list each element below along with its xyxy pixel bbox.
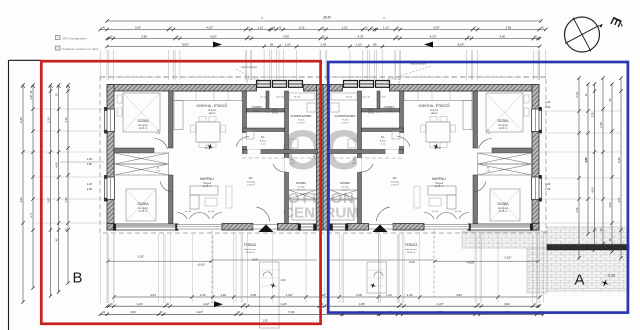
svg-text:Fürdő: Fürdő: [342, 119, 348, 122]
svg-text:3,00: 3,00: [504, 302, 510, 306]
svg-text:jm 1,00: jm 1,00: [207, 211, 214, 213]
svg-text:4,22⁵: 4,22⁵: [433, 25, 441, 29]
svg-text:3,90: 3,90: [141, 34, 147, 38]
svg-text:4,22⁵: 4,22⁵: [203, 302, 211, 306]
svg-text:GFS hőszigetelés: GFS hőszigetelés: [62, 36, 87, 40]
svg-text:11,02 m²: 11,02 m²: [499, 127, 508, 130]
entry walk: [260, 262, 280, 328]
top extension hairlines: [99, 50, 101, 80]
big window bottom: [469, 224, 532, 230]
tv/cab: [226, 186, 232, 208]
svg-text:1,20: 1,20: [407, 293, 413, 297]
door arc szoba1: [154, 139, 168, 149]
svg-text:SZOBA: SZOBA: [340, 181, 350, 185]
door szoba2: [473, 182, 486, 192]
door gaps: [284, 158, 289, 172]
svg-text:Mosdó: Mosdó: [272, 113, 279, 115]
exterior wall top: [390, 85, 540, 92]
svg-text:3,67: 3,67: [585, 157, 588, 162]
svg-text:8,25: 8,25: [19, 117, 23, 123]
svg-text:3,67: 3,67: [47, 197, 50, 202]
svg-text:1,20: 1,20: [200, 293, 206, 297]
svg-text:jm 1,00: jm 1,00: [454, 211, 461, 213]
entrance triangle: [373, 225, 388, 233]
svg-text:3,90: 3,90: [500, 34, 506, 38]
svg-text:4,22⁵: 4,22⁵: [210, 34, 218, 38]
top dimension rows: [107, 20, 541, 22]
blue boundary unit A: [328, 62, 628, 313]
svg-text:Raktár: Raktár: [254, 110, 261, 113]
bed szoba2: [126, 189, 156, 221]
svg-text:TERASZ: TERASZ: [405, 243, 418, 247]
svg-text:7,26 m²: 7,26 m²: [297, 122, 305, 125]
svg-text:FÜRDŐSZOBA: FÜRDŐSZOBA: [335, 113, 356, 118]
compass: [565, 17, 600, 52]
bed szoba1: [486, 93, 523, 132]
svg-text:étkező: étkező: [431, 112, 438, 115]
svg-text:1,00 2,40: 1,00 2,40: [362, 97, 370, 99]
svg-text:SZOBA: SZOBA: [296, 181, 306, 185]
svg-text:5,30 m²: 5,30 m²: [247, 184, 255, 187]
svg-text:Nappali: Nappali: [435, 183, 443, 185]
door arcs cluster: [397, 136, 410, 146]
svg-text:1,92⁵: 1,92⁵: [286, 293, 294, 297]
svg-text:B: B: [72, 270, 82, 287]
svg-text:3,10: 3,10: [576, 207, 579, 212]
svg-text:6,00: 6,00: [252, 258, 258, 262]
svg-text:1,00: 1,00: [285, 42, 291, 46]
sofa nappali: [190, 186, 218, 195]
partition szoba1: [473, 91, 478, 148]
svg-text:Szélfogó: Szélfogó: [391, 182, 400, 184]
bath fixtures: [331, 93, 357, 100]
cluster kamra/wc/bath: [243, 91, 247, 153]
svg-text:jm 1,00: jm 1,00: [431, 211, 438, 213]
svg-text:1,00: 1,00: [356, 42, 362, 46]
big window bottom: [114, 224, 177, 230]
entrance triangle: [259, 225, 274, 233]
svg-text:Szélfogó: Szélfogó: [247, 182, 256, 184]
svg-text:NAPPALI: NAPPALI: [200, 177, 214, 181]
svg-text:4,35: 4,35: [358, 34, 364, 38]
bottom wall mid: [393, 224, 424, 231]
svg-text:3,97: 3,97: [29, 94, 33, 100]
kl fixtures: [392, 131, 400, 139]
svg-text:1,20: 1,20: [545, 100, 551, 104]
svg-text:11,02 m²: 11,02 m²: [139, 127, 148, 130]
svg-text:4,22⁵: 4,22⁵: [196, 310, 204, 314]
kitchen counter: [404, 92, 472, 101]
svg-text:±0,00: ±0,00: [435, 146, 442, 150]
svg-text:ET.: ET.: [393, 176, 398, 180]
svg-text:2,14: 2,14: [46, 117, 50, 123]
svg-text:SZOBA: SZOBA: [497, 119, 509, 123]
svg-text:2,14: 2,14: [65, 117, 68, 122]
svg-text:90 2,40: 90 2,40: [294, 97, 300, 99]
svg-text:Konyha: Konyha: [430, 110, 439, 112]
bottom extension hairlines: [99, 234, 101, 303]
svg-text:4,05: 4,05: [590, 187, 594, 193]
red boundary unit B: [41, 61, 320, 324]
svg-text:5,90: 5,90: [289, 310, 295, 314]
exterior wall bottom: [532, 224, 539, 231]
svg-text:8,92⁵: 8,92⁵: [182, 42, 190, 46]
svg-text:jm 1,00: jm 1,00: [184, 211, 191, 213]
svg-text:4,54: 4,54: [150, 293, 156, 297]
exterior wall bottom: [107, 224, 114, 231]
svg-text:1,10: 1,10: [383, 25, 389, 29]
patio door arcs: [459, 213, 469, 219]
bed szoba1: [123, 93, 160, 132]
sofa nappali: [428, 186, 456, 195]
svg-text:Fürdő: Fürdő: [298, 119, 304, 122]
svg-text:Hőszivattyú: Hőszivattyú: [241, 65, 257, 69]
patio door opening: [177, 225, 222, 230]
svg-text:1,20: 1,20: [386, 293, 392, 297]
svg-text:8,92⁵: 8,92⁵: [458, 42, 466, 46]
terrace outline: [433, 231, 435, 298]
svg-text:KONYHA - ÉTKEZŐ: KONYHA - ÉTKEZŐ: [197, 103, 228, 108]
paving area: [462, 231, 547, 248]
bath fixtures: [289, 93, 315, 100]
patio door arcs: [177, 213, 187, 219]
svg-text:4,00: 4,00: [54, 162, 58, 168]
party wall: [323, 85, 330, 231]
svg-text:4,22⁵: 4,22⁵: [206, 25, 214, 29]
ceiling dashes: [100, 76, 546, 78]
svg-text:4,35: 4,35: [283, 34, 289, 38]
svg-text:4,05: 4,05: [618, 197, 621, 202]
right dim chains: [578, 78, 580, 258]
dining table: [426, 122, 450, 142]
svg-text:1,20: 1,20: [87, 182, 93, 186]
small window bottom: [331, 224, 347, 230]
svg-text:2,28: 2,28: [356, 293, 362, 297]
svg-text:1,20: 1,20: [87, 157, 93, 161]
room labels: [207, 144, 213, 150]
door gaps: [357, 158, 362, 172]
svg-text:5,30 m²: 5,30 m²: [391, 184, 399, 187]
top window boxes: [257, 81, 271, 88]
svg-text:két ágy: két ágy: [297, 186, 305, 189]
svg-text:fedett terasz: fedett terasz: [244, 248, 256, 251]
exterior wall left: [532, 85, 539, 231]
left windows: [107, 109, 115, 132]
partition szoba1: [169, 91, 174, 148]
svg-text:FÜRDŐSZOBA: FÜRDŐSZOBA: [291, 113, 312, 118]
svg-text:2,28: 2,28: [250, 293, 256, 297]
svg-text:1,50: 1,50: [545, 187, 551, 191]
svg-text:2,15: 2,15: [299, 25, 305, 29]
svg-text:-0,30: -0,30: [607, 274, 615, 278]
szoba3 furniture: [330, 190, 358, 199]
svg-text:2,15: 2,15: [342, 25, 348, 29]
svg-text:19,03 m²: 19,03 m²: [407, 251, 416, 254]
svg-text:A: A: [574, 272, 584, 289]
bed szoba2: [490, 189, 520, 221]
svg-text:Kamra: Kamra: [260, 140, 267, 143]
svg-text:SZOBA: SZOBA: [137, 119, 149, 123]
svg-text:2,77: 2,77: [30, 212, 33, 217]
svg-text:6,00: 6,00: [409, 260, 415, 264]
roof overhang dashed outline: [100, 77, 546, 233]
tv/cab: [414, 186, 420, 208]
svg-text:Padlóban elektromos fűtés: Padlóban elektromos fűtés: [62, 47, 99, 51]
svg-text:KAMRA: KAMRA: [384, 105, 395, 109]
szoba3 furniture: [289, 190, 317, 199]
svg-text:25,40: 25,40: [323, 16, 331, 20]
svg-text:19,03 m²: 19,03 m²: [246, 251, 255, 254]
svg-text:Konyha: Konyha: [208, 110, 217, 112]
svg-text:3,92⁵: 3,92⁵: [504, 256, 512, 260]
svg-text:4,00: 4,00: [608, 202, 612, 208]
door szoba2: [160, 182, 173, 192]
svg-text:étkező: étkező: [209, 112, 216, 115]
heat pump dashed box: [388, 79, 399, 85]
kitchen counter: [174, 92, 242, 101]
bottom flag: [214, 301, 223, 307]
left windows: [532, 109, 540, 132]
patio door opening: [424, 225, 469, 230]
svg-text:1,50: 1,50: [87, 187, 93, 191]
svg-text:90 2,40: 90 2,40: [346, 97, 352, 99]
svg-text:2,14: 2,14: [575, 92, 579, 98]
garden wall: [547, 245, 629, 251]
bottom dimension rows: [114, 296, 498, 298]
svg-text:WC: WC: [369, 108, 375, 112]
svg-text:4,23: 4,23: [20, 197, 23, 202]
kl fixtures: [246, 131, 254, 139]
svg-text:85: 85: [373, 42, 377, 46]
heat pump dashed box: [247, 79, 258, 85]
partition szoba2: [473, 175, 478, 224]
section flag top: [213, 42, 222, 48]
svg-text:két ágyas: két ágyas: [498, 124, 509, 127]
svg-text:két ágyas: két ágyas: [138, 124, 149, 127]
svg-text:KAMRA: KAMRA: [252, 105, 263, 109]
svg-text:±0,00: ±0,00: [205, 146, 212, 150]
svg-text:1,20: 1,20: [220, 293, 226, 297]
bottom wall right: [278, 224, 300, 231]
terrace outline: [211, 231, 213, 307]
svg-text:4,22⁵: 4,22⁵: [437, 302, 445, 306]
svg-text:7,26 m²: 7,26 m²: [341, 122, 349, 125]
svg-text:Nappali: Nappali: [203, 183, 211, 185]
door arcs cluster: [236, 136, 249, 146]
partition szoba2: [169, 175, 174, 224]
svg-text:2,28: 2,28: [599, 122, 603, 128]
svg-text:3,00: 3,00: [130, 310, 136, 314]
entry walk: [367, 262, 387, 293]
svg-text:SZOBA: SZOBA: [137, 202, 149, 206]
svg-text:21,35 m²: 21,35 m²: [434, 185, 443, 188]
wardrobe: [115, 153, 169, 164]
svg-text:2,30: 2,30: [280, 278, 286, 282]
left dim chains: [22, 85, 24, 302]
svg-text:2,28: 2,28: [591, 112, 594, 117]
svg-text:3,59: 3,59: [505, 25, 511, 29]
svg-text:ET.: ET.: [249, 176, 254, 180]
party wall: [317, 85, 324, 231]
svg-text:TERASZ: TERASZ: [244, 243, 257, 247]
svg-text:1,35: 1,35: [262, 319, 268, 323]
svg-text:KONYHA - ÉTKEZŐ: KONYHA - ÉTKEZŐ: [419, 103, 450, 108]
svg-text:3,00: 3,00: [137, 302, 143, 306]
svg-text:1,50: 1,50: [87, 162, 93, 166]
svg-text:két ágy: két ágy: [341, 186, 349, 189]
svg-text:KL.: KL.: [261, 135, 266, 139]
wardrobe: [478, 153, 532, 164]
svg-text:4,20: 4,20: [281, 302, 287, 306]
svg-text:KL.: KL.: [381, 135, 386, 139]
svg-text:WC: WC: [273, 108, 279, 112]
svg-text:1,50: 1,50: [64, 197, 68, 203]
svg-text:4,54: 4,54: [456, 293, 462, 297]
entrance opening: [369, 225, 394, 230]
bottom wall mid: [222, 224, 253, 231]
svg-text:4,22⁵: 4,22⁵: [430, 34, 438, 38]
top window boxes: [376, 81, 390, 88]
svg-text:Mosdó: Mosdó: [368, 113, 375, 115]
exterior wall top: [107, 85, 257, 92]
watermark logo: [281, 118, 362, 222]
svg-text:két ágyas: két ágyas: [138, 207, 149, 210]
drawing frame: [8, 60, 10, 330]
svg-text:1,00 2,40: 1,00 2,40: [276, 97, 284, 99]
svg-text:Raktár: Raktár: [386, 110, 393, 113]
dining table: [196, 122, 220, 142]
svg-text:3,59: 3,59: [135, 25, 141, 29]
svg-text:3,92⁵: 3,92⁵: [137, 255, 145, 259]
svg-text:1,10: 1,10: [257, 25, 263, 29]
svg-text:85: 85: [270, 42, 274, 46]
small window bottom: [299, 224, 315, 230]
svg-text:1,50: 1,50: [545, 105, 551, 109]
svg-text:11,02 m²: 11,02 m²: [341, 189, 350, 192]
svg-text:8,25: 8,25: [617, 157, 621, 163]
svg-text:3,03: 3,03: [320, 42, 326, 46]
entrance opening: [253, 225, 278, 230]
svg-text:két ágyas: két ágyas: [498, 207, 509, 210]
exterior wall left: [107, 85, 114, 231]
svg-text:21,35 m²: 21,35 m²: [202, 185, 211, 188]
svg-text:Kamra: Kamra: [380, 140, 387, 143]
svg-text:±0,00: ±0,00: [198, 263, 205, 267]
legend: [56, 36, 61, 40]
cluster kamra/wc/bath: [400, 91, 404, 153]
svg-text:fedett terasz: fedett terasz: [405, 248, 417, 251]
svg-text:4,35: 4,35: [359, 302, 365, 306]
svg-text:SZOBA: SZOBA: [497, 202, 509, 206]
svg-text:11,02 m²: 11,02 m²: [297, 189, 306, 192]
svg-text:21,35 m²: 21,35 m²: [498, 210, 507, 213]
svg-text:NAPPALI: NAPPALI: [432, 177, 446, 181]
bottom wall right: [347, 224, 369, 231]
door arc szoba1: [479, 139, 493, 149]
svg-text:1,20: 1,20: [545, 182, 551, 186]
svg-text:21,35 m²: 21,35 m²: [138, 210, 147, 213]
hairlines into plan: [33, 108, 107, 110]
